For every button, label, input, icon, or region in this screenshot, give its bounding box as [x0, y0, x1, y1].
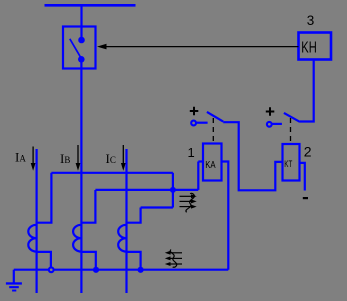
- svg-text:KH: KH: [301, 40, 317, 57]
- contact KA1 blade: [207, 112, 223, 122]
- branch arrows group 2 (to measuring circuits): [169, 250, 183, 268]
- trip arrowhead: [97, 44, 107, 50]
- contact KT1 blade: [284, 113, 300, 122]
- wire phase B CT to relay KA: [95, 189, 198, 191]
- wire phase A CT to node: [51, 172, 172, 174]
- contact KA1 terminal circle: [191, 121, 196, 126]
- contact KT1 fixed lead: [272, 123, 282, 125]
- breaker QF box: [63, 27, 96, 69]
- common return bus: [14, 269, 229, 271]
- breaker blade: [70, 39, 81, 59]
- CT TA1 secondary top lead: [37, 173, 52, 223]
- mechanical link KT: [290, 118, 292, 144]
- relay coil KT box: [283, 144, 300, 181]
- contact KA1 fixed lead: [197, 122, 208, 124]
- wire bus to breaker QF: [80, 5, 82, 40]
- annunciator KH box: [299, 33, 332, 60]
- CT TA3 winding: [118, 225, 126, 252]
- wire up to KA left lead: [197, 162, 199, 190]
- breaker bottom contact dot: [78, 56, 85, 63]
- mechanical link KA: [212, 118, 214, 144]
- plus terminal 2: [266, 107, 275, 115]
- arrowhead IC: [121, 163, 126, 171]
- svg-text:KA: KA: [205, 159, 215, 171]
- CT TA2 winding: [73, 225, 81, 252]
- wire contact KA1 to KT coil: [223, 122, 282, 190]
- svg-text:3: 3: [307, 13, 315, 28]
- wire phase C CT to node: [141, 206, 173, 208]
- plus terminal 1: [190, 107, 199, 115]
- node junction dot: [170, 187, 176, 193]
- phase A line: [35, 149, 37, 293]
- wire breaker to phase B: [80, 59, 82, 293]
- svg-text:KT: KT: [284, 159, 292, 169]
- relay coil KA leads: [198, 160, 203, 162]
- CT TA1 bus terminal circle: [49, 267, 54, 272]
- branch arrows group 1 (to measuring circuits): [180, 193, 195, 212]
- CT TA3 secondary bottom lead: [127, 252, 141, 269]
- CT TA2 bus junction dot: [93, 267, 99, 273]
- wire KT right lead to minus: [300, 163, 305, 191]
- current arrow IB: [77, 145, 79, 164]
- CT TA2 secondary top lead: [81, 190, 95, 223]
- current arrow IA: [32, 147, 34, 165]
- svg-text:2: 2: [304, 144, 312, 160]
- CT TA2 secondary bottom lead: [81, 252, 95, 269]
- arrowhead IA: [31, 163, 36, 171]
- svg-text:1: 1: [188, 145, 195, 160]
- ground symbol bars: [6, 282, 22, 291]
- relay coil KA box: [203, 144, 222, 181]
- minus terminal: [303, 197, 308, 199]
- ground stub: [13, 270, 15, 283]
- wire node vertical: [172, 173, 174, 208]
- breaker top contact dot: [78, 37, 85, 44]
- CT TA3 secondary top lead: [127, 208, 141, 223]
- CT TA1 secondary bottom lead: [37, 252, 51, 269]
- CT TA1 winding: [28, 225, 36, 252]
- wire contact KT1 to KH: [300, 60, 314, 122]
- phase C line: [125, 149, 127, 293]
- trip wire KH to breaker: [104, 46, 299, 48]
- contact KT1 terminal circle: [267, 122, 272, 127]
- CT TA3 bus junction dot: [138, 267, 144, 273]
- busbar: [45, 4, 136, 7]
- current arrow IC: [122, 145, 124, 164]
- arrowhead IB: [76, 163, 81, 171]
